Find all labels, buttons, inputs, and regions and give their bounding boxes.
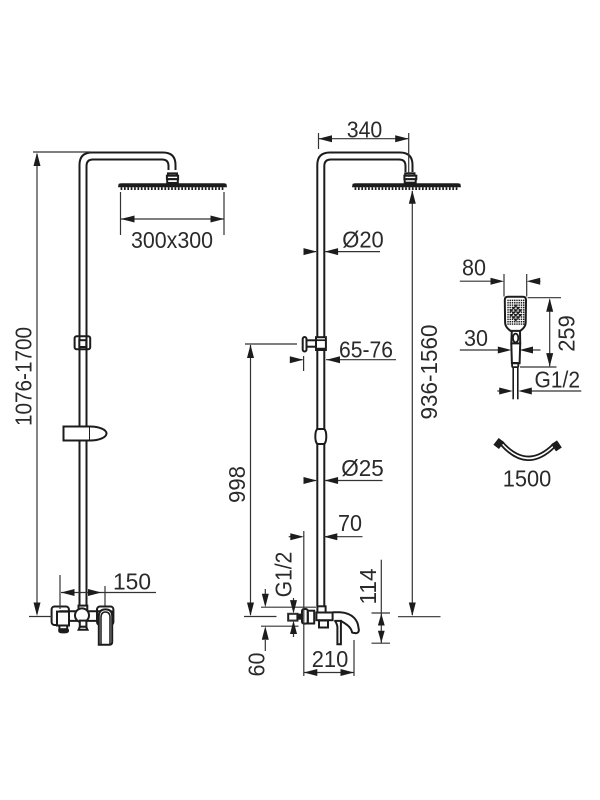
svg-text:114: 114: [355, 568, 381, 604]
svg-text:150: 150: [113, 569, 151, 595]
svg-text:Ø25: Ø25: [341, 455, 384, 481]
svg-text:G1/2: G1/2: [535, 366, 581, 392]
svg-text:340: 340: [347, 117, 383, 143]
svg-text:1500: 1500: [503, 466, 552, 492]
svg-text:259: 259: [553, 315, 579, 352]
svg-text:G1/2: G1/2: [271, 552, 297, 598]
svg-text:998: 998: [224, 466, 250, 503]
svg-text:210: 210: [312, 646, 349, 672]
svg-text:936-1560: 936-1560: [416, 325, 442, 420]
svg-text:1076-1700: 1076-1700: [11, 327, 37, 426]
svg-text:300x300: 300x300: [131, 227, 213, 253]
svg-text:60: 60: [244, 653, 270, 677]
svg-text:80: 80: [462, 254, 486, 280]
svg-text:70: 70: [338, 510, 362, 536]
svg-text:Ø20: Ø20: [342, 227, 384, 253]
svg-text:65-76: 65-76: [339, 337, 393, 363]
svg-text:30: 30: [464, 325, 488, 351]
